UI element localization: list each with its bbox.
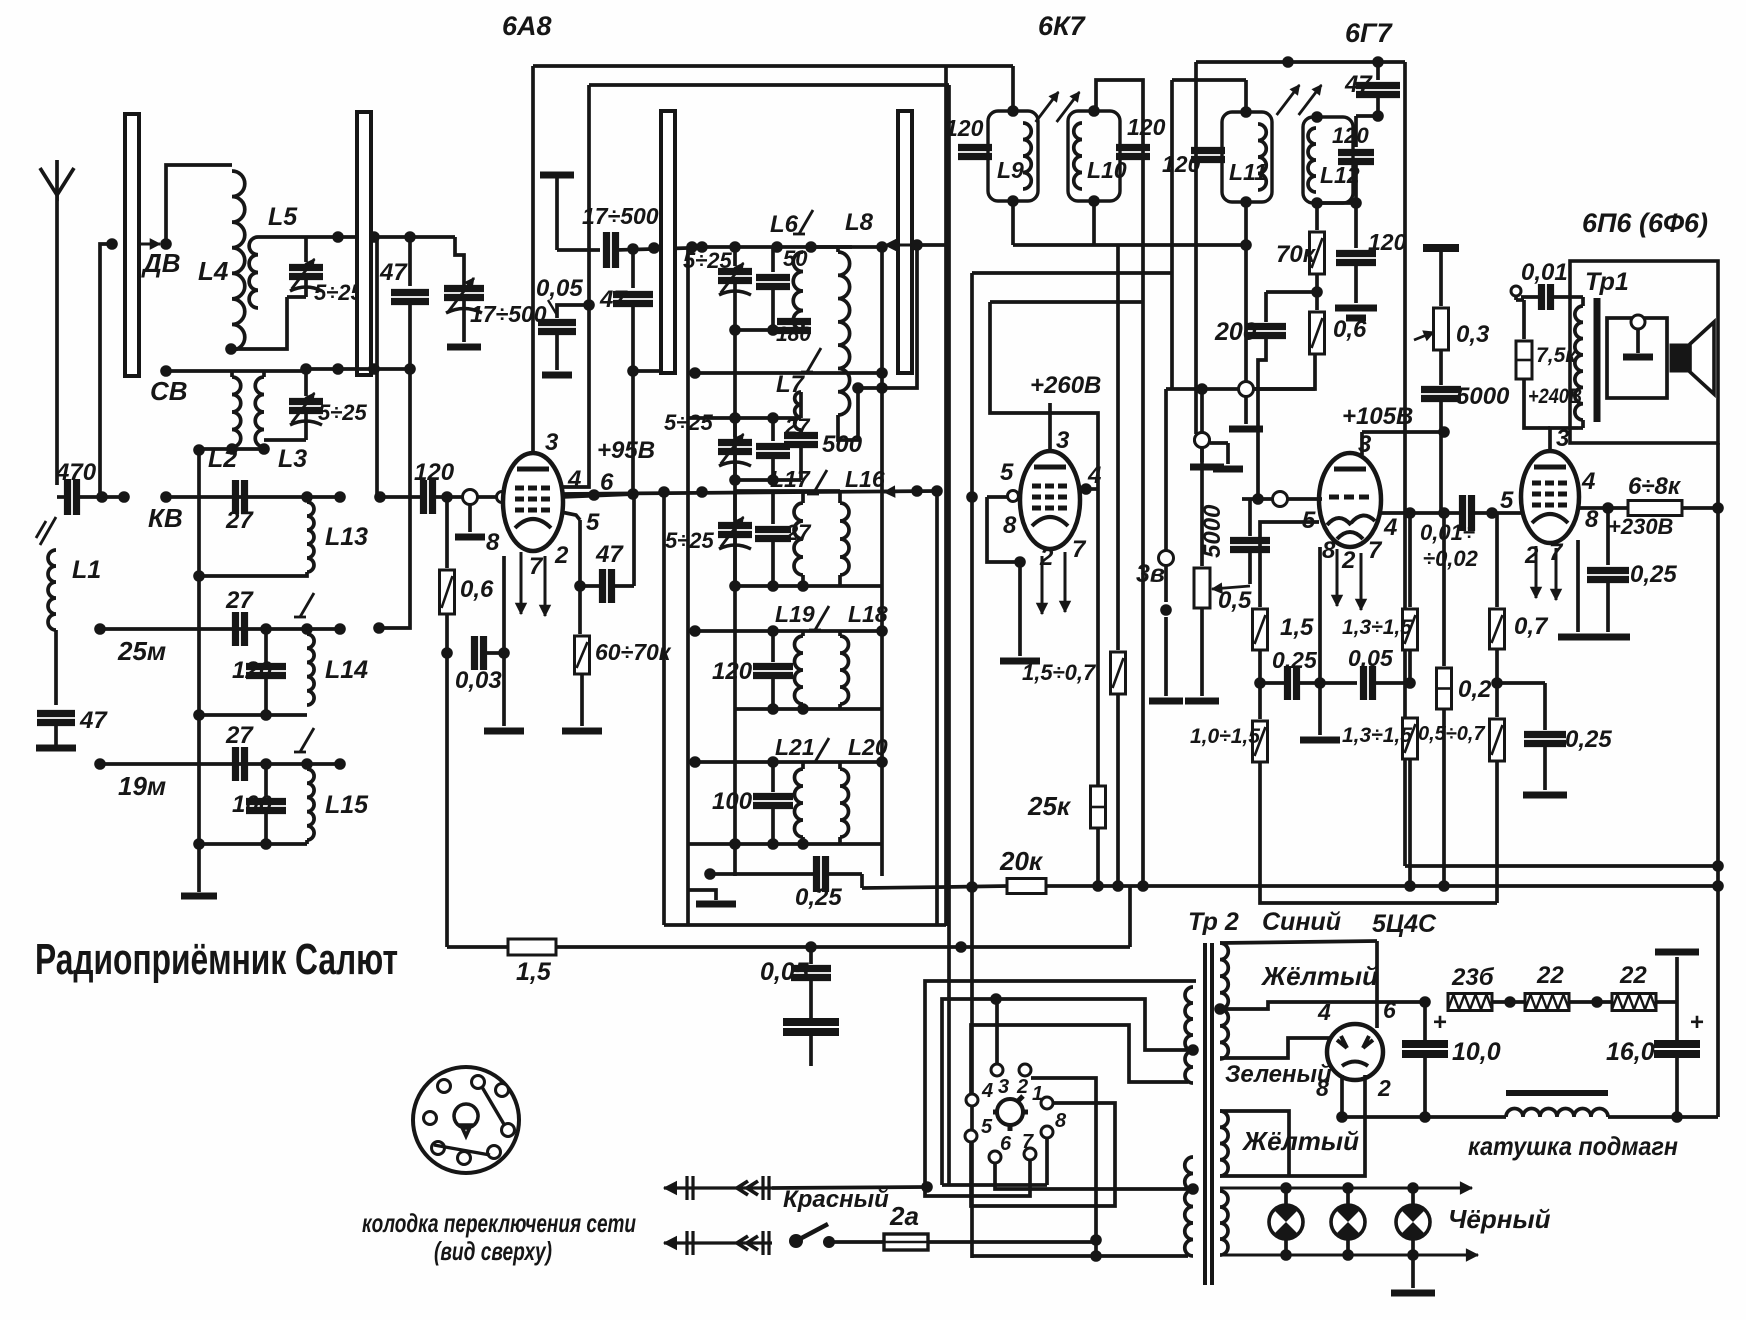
inductor L11 coil [1258, 124, 1266, 190]
node L12 top [1311, 111, 1323, 123]
svg-text:6: 6 [1383, 997, 1396, 1023]
tube 6K7 envelope [1020, 451, 1080, 549]
transformer Tr2 lamp winding [1220, 1191, 1228, 1255]
node L9 bottom [1007, 195, 1019, 207]
node [1438, 880, 1450, 892]
svg-text:4: 4 [567, 466, 581, 493]
svg-text:5Ц4С: 5Ц4С [1372, 910, 1437, 938]
wire red [772, 1187, 927, 1188]
wire [631, 304, 635, 494]
svg-text:8: 8 [1316, 1075, 1329, 1101]
wire IF bus row [561, 491, 937, 494]
capacitor 180 [801, 318, 805, 330]
node [260, 838, 272, 850]
resistor 1.5 [1260, 522, 1319, 607]
node [583, 299, 595, 311]
svg-text:7,5к: 7,5к [1536, 344, 1577, 367]
svg-text:L11: L11 [1229, 159, 1267, 185]
svg-text:120: 120 [232, 657, 273, 684]
node antenna junction [96, 491, 108, 503]
capacitor 16.0 electrolytic [1675, 1002, 1679, 1040]
speaker cone [1690, 322, 1714, 394]
svg-text:5: 5 [981, 1116, 993, 1138]
wire [1258, 336, 1266, 494]
svg-text:3: 3 [998, 1076, 1009, 1098]
arrow gang tap L8 [885, 244, 917, 247]
node DV left [106, 238, 118, 250]
svg-text:120: 120 [1332, 123, 1369, 148]
wire [1423, 1054, 1427, 1117]
node [627, 243, 639, 255]
resistor 0.2 [1442, 513, 1446, 666]
plug bar a1 [685, 1176, 688, 1200]
node [1602, 502, 1614, 514]
wire [1495, 761, 1499, 903]
socket hole 3 [496, 1084, 509, 1097]
wire group5 top [688, 760, 882, 764]
switch lever [789, 1234, 803, 1248]
heater arrow 6K7 a [1041, 556, 1044, 614]
socket pin 2 [1019, 1064, 1031, 1076]
svg-text:0,03: 0,03 [455, 667, 502, 694]
node [300, 363, 312, 375]
capacitor 0.05 grid2 [557, 305, 589, 318]
wire [1260, 762, 1497, 903]
node [374, 491, 386, 503]
svg-text:6: 6 [1000, 1133, 1012, 1155]
chevron lower [737, 1236, 748, 1250]
node L11 bottom [1240, 196, 1252, 208]
node L10 top [1088, 105, 1100, 117]
wire [771, 676, 775, 709]
socket top view circle [413, 1067, 519, 1173]
output stage box [1570, 261, 1718, 443]
arrow band switch DV [141, 243, 160, 246]
svg-text:L9: L9 [997, 157, 1024, 183]
wire KV row [166, 495, 307, 499]
wire L3 top to trimmer [262, 371, 266, 377]
trimmer capacitor 5-25 osc1 [733, 247, 737, 266]
svg-text:120: 120 [1127, 114, 1166, 140]
wire [380, 495, 423, 499]
node [258, 443, 270, 455]
wire [771, 806, 775, 844]
wire rect pin2 [1220, 1075, 1365, 1176]
capacitor 120 if [771, 631, 775, 662]
transformer Tr2 filament 5v [1220, 1111, 1228, 1176]
ground volume [1185, 698, 1219, 705]
svg-text:Радиоприёмник Салют: Радиоприёмник Салют [35, 935, 398, 984]
IF can L12 frame [1303, 117, 1353, 203]
capacitor 17-500 osc [603, 232, 610, 268]
wire [580, 674, 584, 726]
wire [1521, 295, 1541, 299]
trimmer arrows L9 L10 [1036, 92, 1059, 122]
ground top bar [1655, 949, 1699, 956]
svg-text:L10: L10 [1087, 157, 1127, 183]
terminal AVC [1195, 433, 1210, 448]
wire [1356, 114, 1378, 118]
wire right edge [1716, 443, 1720, 1117]
wire group4 bottom [735, 707, 882, 711]
terminal grid 6G7 [1273, 492, 1288, 507]
svg-text:8: 8 [1055, 1110, 1067, 1132]
svg-text:L12: L12 [1320, 162, 1360, 188]
svg-text:8: 8 [1003, 512, 1017, 539]
trimmer arrows L11 L12 [1277, 85, 1300, 115]
resistor 7.5k [1522, 300, 1526, 339]
svg-text:7: 7 [529, 553, 544, 580]
wire [1354, 162, 1358, 203]
capacitor 27 KV [232, 480, 239, 514]
wire screen step [990, 302, 1098, 489]
resistor 1.3-1.5 bottom [1403, 718, 1418, 759]
socket hole 2 [472, 1076, 485, 1089]
wire L17 L16 tops [735, 489, 840, 493]
resistor 22 a [1525, 994, 1569, 1011]
ground lamps [1391, 1290, 1435, 1297]
capacitor 5000 tone [1421, 386, 1461, 393]
wire anode 6A8 [531, 66, 535, 453]
variable capacitor 17-500 padder [444, 285, 484, 292]
wire [102, 495, 124, 499]
svg-text:+95В: +95В [597, 437, 655, 464]
node [1280, 1249, 1292, 1261]
wire L6 row [688, 245, 852, 249]
switch rail bar S1c [661, 111, 675, 373]
wire SV row right part [374, 367, 410, 371]
wire switch box second [942, 999, 1188, 1185]
svg-text:120: 120 [1162, 151, 1201, 177]
socket pin 4 [966, 1094, 978, 1106]
inductor L14 [307, 634, 314, 705]
inductor L1 [48, 550, 56, 630]
heater arrow 6G7 a [1336, 549, 1339, 606]
node [1419, 996, 1431, 1008]
node 25m link [373, 622, 385, 634]
battery terminal 3v [1159, 551, 1174, 566]
ground 60-70k [562, 728, 602, 735]
svg-text:100: 100 [232, 791, 273, 818]
potentiometer 0.5 volume [1200, 447, 1204, 566]
svg-text:L16: L16 [845, 466, 885, 492]
wire lamp bus top [1220, 1187, 1472, 1190]
heater arrow pin2 [544, 556, 547, 616]
svg-text:0,7: 0,7 [1514, 613, 1549, 640]
svg-text:4: 4 [1581, 468, 1595, 495]
svg-text:23б: 23б [1451, 964, 1495, 991]
wire [1439, 399, 1443, 513]
node [226, 443, 238, 455]
inductor L16 coil [840, 503, 849, 575]
wire [1373, 681, 1410, 685]
wire [1675, 957, 1679, 1002]
node [334, 623, 346, 635]
wire [1258, 650, 1262, 719]
svg-text:1,5: 1,5 [1280, 614, 1314, 641]
pin8 shell [468, 505, 472, 532]
svg-text:8: 8 [486, 529, 500, 556]
ground AVC [1200, 448, 1204, 462]
node [441, 491, 453, 503]
wire [1096, 828, 1100, 886]
ground cathode 6A8 [484, 728, 524, 735]
node [1240, 239, 1252, 251]
wire 19m row [100, 762, 340, 766]
wire [230, 371, 234, 377]
svg-text:L21: L21 [775, 734, 815, 760]
chevron upper [737, 1181, 748, 1195]
speaker magnet box [1670, 344, 1690, 372]
svg-text:100: 100 [712, 788, 753, 815]
trimmer mark L15 [300, 728, 314, 752]
node [729, 412, 741, 424]
inductor L10 coil [1074, 123, 1082, 189]
svg-text:L13: L13 [325, 523, 368, 551]
mains plug prong upper [664, 1186, 772, 1189]
wire L8 top [836, 247, 840, 252]
inductor L19 coil [795, 636, 804, 704]
svg-text:180: 180 [776, 323, 811, 346]
wire screen drop [1096, 489, 1100, 786]
svg-text:L8: L8 [845, 209, 874, 236]
ground band coils [197, 875, 201, 892]
wire [1444, 511, 1462, 515]
svg-text:колодка переключения сети: колодка переключения сети [362, 1208, 636, 1238]
socket pin 3 [991, 1064, 1003, 1076]
svg-text:0,5÷0,7: 0,5÷0,7 [1418, 723, 1485, 745]
wire pin6 tap [995, 1163, 1188, 1189]
wire jog to bus [860, 874, 864, 888]
wire [434, 495, 462, 499]
wire [1376, 95, 1380, 116]
svg-text:+: + [1433, 1009, 1447, 1036]
terminal 0.01 in [1511, 286, 1521, 296]
wire anode 6K7 [1048, 403, 1052, 451]
antenna W1 [40, 160, 57, 195]
heater arrow 6G7 b [1360, 553, 1363, 610]
resistor 0.6 osc grid [1310, 312, 1325, 354]
terminal grid 6A8 [463, 490, 478, 505]
wire [942, 1183, 1047, 1187]
wire group4 top [688, 629, 882, 633]
IF can L10 frame [1068, 111, 1120, 201]
node [648, 242, 660, 254]
svg-text:25м: 25м [117, 636, 166, 666]
wire grid [478, 495, 505, 499]
svg-text:7: 7 [1072, 536, 1087, 563]
svg-text:0,01÷: 0,01÷ [1420, 520, 1475, 545]
capacitor 27 19m [232, 747, 239, 781]
switch rail bar S1d [898, 111, 912, 373]
wire pin3 up [995, 999, 999, 1076]
svg-text:17÷500: 17÷500 [470, 301, 547, 327]
wire to padder [455, 237, 464, 286]
svg-text:L5: L5 [268, 203, 298, 231]
capacitor 47 gang pad [408, 237, 412, 286]
transformer Tr2 core [1203, 943, 1207, 1285]
socket pin 7 [1024, 1148, 1036, 1160]
arrow gang tap IF [884, 491, 912, 492]
wire top bus2 [589, 83, 949, 87]
capacitor 0.05 af [1360, 666, 1367, 700]
node SV [160, 365, 172, 377]
wire [1354, 263, 1358, 303]
svg-text:22: 22 [1536, 962, 1564, 989]
capacitor 120 L9 [958, 144, 992, 151]
node [1254, 677, 1266, 689]
svg-text:20к: 20к [999, 846, 1044, 876]
svg-text:0,6: 0,6 [1333, 316, 1367, 343]
wire [408, 302, 412, 369]
wire bus1 drop to L9 [1011, 66, 1015, 111]
wire [809, 1032, 813, 1066]
svg-text:0,25: 0,25 [1630, 561, 1677, 588]
wire [1656, 1000, 1677, 1004]
wire [1408, 650, 1412, 683]
wire [1543, 744, 1547, 790]
wire [1164, 566, 1168, 602]
svg-text:Тр 2: Тр 2 [1188, 908, 1239, 936]
wire 19m bottom rail [199, 842, 307, 846]
tube 6G7 envelope [1319, 453, 1381, 547]
svg-text:3в: 3в [1136, 560, 1165, 588]
switch rail bar S1a [125, 114, 139, 376]
wire [1439, 350, 1443, 385]
resistor 1.5 agc [508, 939, 556, 955]
ground [1213, 466, 1243, 473]
wire [445, 614, 449, 653]
wire cathode 6G7 [1318, 547, 1322, 735]
wire [1094, 1242, 1098, 1256]
socket hole 4 [502, 1124, 515, 1137]
wire [972, 271, 1172, 275]
node [332, 363, 344, 375]
svg-text:1: 1 [1032, 1083, 1043, 1105]
inverted ground bar top [1423, 244, 1459, 252]
wire L5 top [258, 235, 306, 239]
wire [1128, 886, 1132, 947]
resistor 70k [1315, 203, 1319, 230]
wire [1492, 1000, 1525, 1004]
wire L8 bottom [838, 388, 858, 440]
svg-text:2а: 2а [889, 1201, 919, 1231]
node [1196, 383, 1208, 395]
svg-text:120: 120 [712, 658, 753, 685]
fuse 2a [884, 1234, 928, 1250]
svg-text:Синий: Синий [1262, 908, 1341, 936]
wire [1675, 1054, 1679, 1117]
node [193, 838, 205, 850]
wire gang right stub [858, 245, 917, 388]
lamp HL2 [1346, 1188, 1350, 1255]
ground avc [1244, 397, 1248, 424]
trimmer capacitor 5-25 if [733, 491, 737, 520]
chassis bar [447, 344, 481, 351]
wire box left edge [686, 247, 690, 926]
wire far drop [1403, 62, 1407, 866]
node [852, 382, 864, 394]
socket key [454, 1104, 478, 1136]
wire bus2 drop [947, 85, 951, 1185]
grid cap bar 6A8 osc [540, 172, 574, 179]
capacitor 200 [1266, 290, 1317, 294]
node L4 bottom [225, 343, 237, 355]
wire pin8 drop [1045, 1138, 1049, 1185]
node [498, 647, 510, 659]
svg-text:+230В: +230В [1608, 514, 1674, 539]
node [1014, 556, 1026, 568]
node [334, 491, 346, 503]
svg-text:47: 47 [379, 259, 408, 286]
capacitor 100 19m [264, 764, 268, 797]
inductor L13 [307, 502, 314, 572]
svg-text:7: 7 [1022, 1131, 1034, 1153]
terminal grid cap 6A8 [497, 492, 508, 503]
svg-text:4: 4 [981, 1080, 993, 1102]
svg-text:L17: L17 [770, 466, 811, 492]
capacitor 27 25m [232, 612, 239, 646]
wire [852, 245, 885, 249]
trimmer capacitor 5-25 DV [304, 237, 308, 262]
node [1252, 493, 1264, 505]
svg-text:5: 5 [1000, 459, 1014, 486]
node [1491, 677, 1503, 689]
svg-text:25к: 25к [1027, 791, 1072, 821]
capacitor 120 L12 [1354, 116, 1358, 147]
wire [1315, 274, 1319, 310]
svg-text:120: 120 [945, 115, 984, 141]
wire L4 to L5 bottom [231, 308, 287, 349]
wire [1682, 506, 1718, 510]
resistor 0.7 [1495, 513, 1499, 607]
svg-text:0,05: 0,05 [1348, 645, 1394, 671]
trimmer mark L14 [300, 593, 314, 617]
wire volume bus [1046, 884, 1718, 888]
plug bar a2 [685, 1231, 688, 1255]
ground osc box [688, 890, 716, 900]
svg-text:(вид сверху): (вид сверху) [434, 1236, 552, 1266]
wire grid 6G7 [1242, 497, 1322, 501]
capacitor 0.25 screen [1606, 508, 1610, 565]
svg-text:5÷25: 5÷25 [683, 248, 733, 273]
capacitor 0.25 af [1284, 666, 1291, 700]
wire grid 6K7 [987, 495, 1022, 499]
wire [1608, 1115, 1718, 1119]
node [404, 363, 416, 375]
svg-text:2: 2 [1016, 1076, 1028, 1098]
wire [1244, 245, 1248, 381]
svg-text:L18: L18 [848, 601, 888, 627]
svg-text:5: 5 [1500, 487, 1514, 514]
svg-text:27: 27 [225, 507, 254, 534]
plug bar b2 [761, 1231, 764, 1255]
capacitor 0.25 if out [813, 856, 820, 892]
svg-text:L3: L3 [278, 445, 307, 473]
wire mains to primary [972, 1254, 1188, 1258]
svg-text:47: 47 [1344, 71, 1373, 98]
capacitor 47 antenna [37, 710, 75, 717]
svg-text:22: 22 [1619, 962, 1647, 989]
svg-text:катушка подмагн: катушка подмагн [1468, 1131, 1678, 1161]
wire [1210, 441, 1228, 445]
inductor L5 [249, 237, 258, 308]
node [441, 647, 453, 659]
node tap HV [1214, 1003, 1226, 1015]
svg-text:L20: L20 [848, 734, 888, 760]
node [966, 491, 978, 503]
node KV [160, 491, 172, 503]
